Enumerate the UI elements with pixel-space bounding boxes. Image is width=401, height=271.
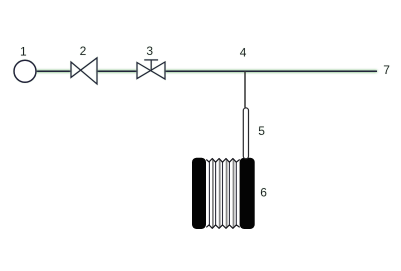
svg-text:7: 7: [383, 63, 390, 77]
svg-text:6: 6: [260, 186, 267, 200]
svg-text:3: 3: [146, 44, 153, 58]
svg-text:5: 5: [258, 124, 265, 138]
svg-text:1: 1: [20, 45, 27, 59]
svg-text:4: 4: [240, 46, 247, 60]
svg-text:2: 2: [80, 44, 87, 58]
